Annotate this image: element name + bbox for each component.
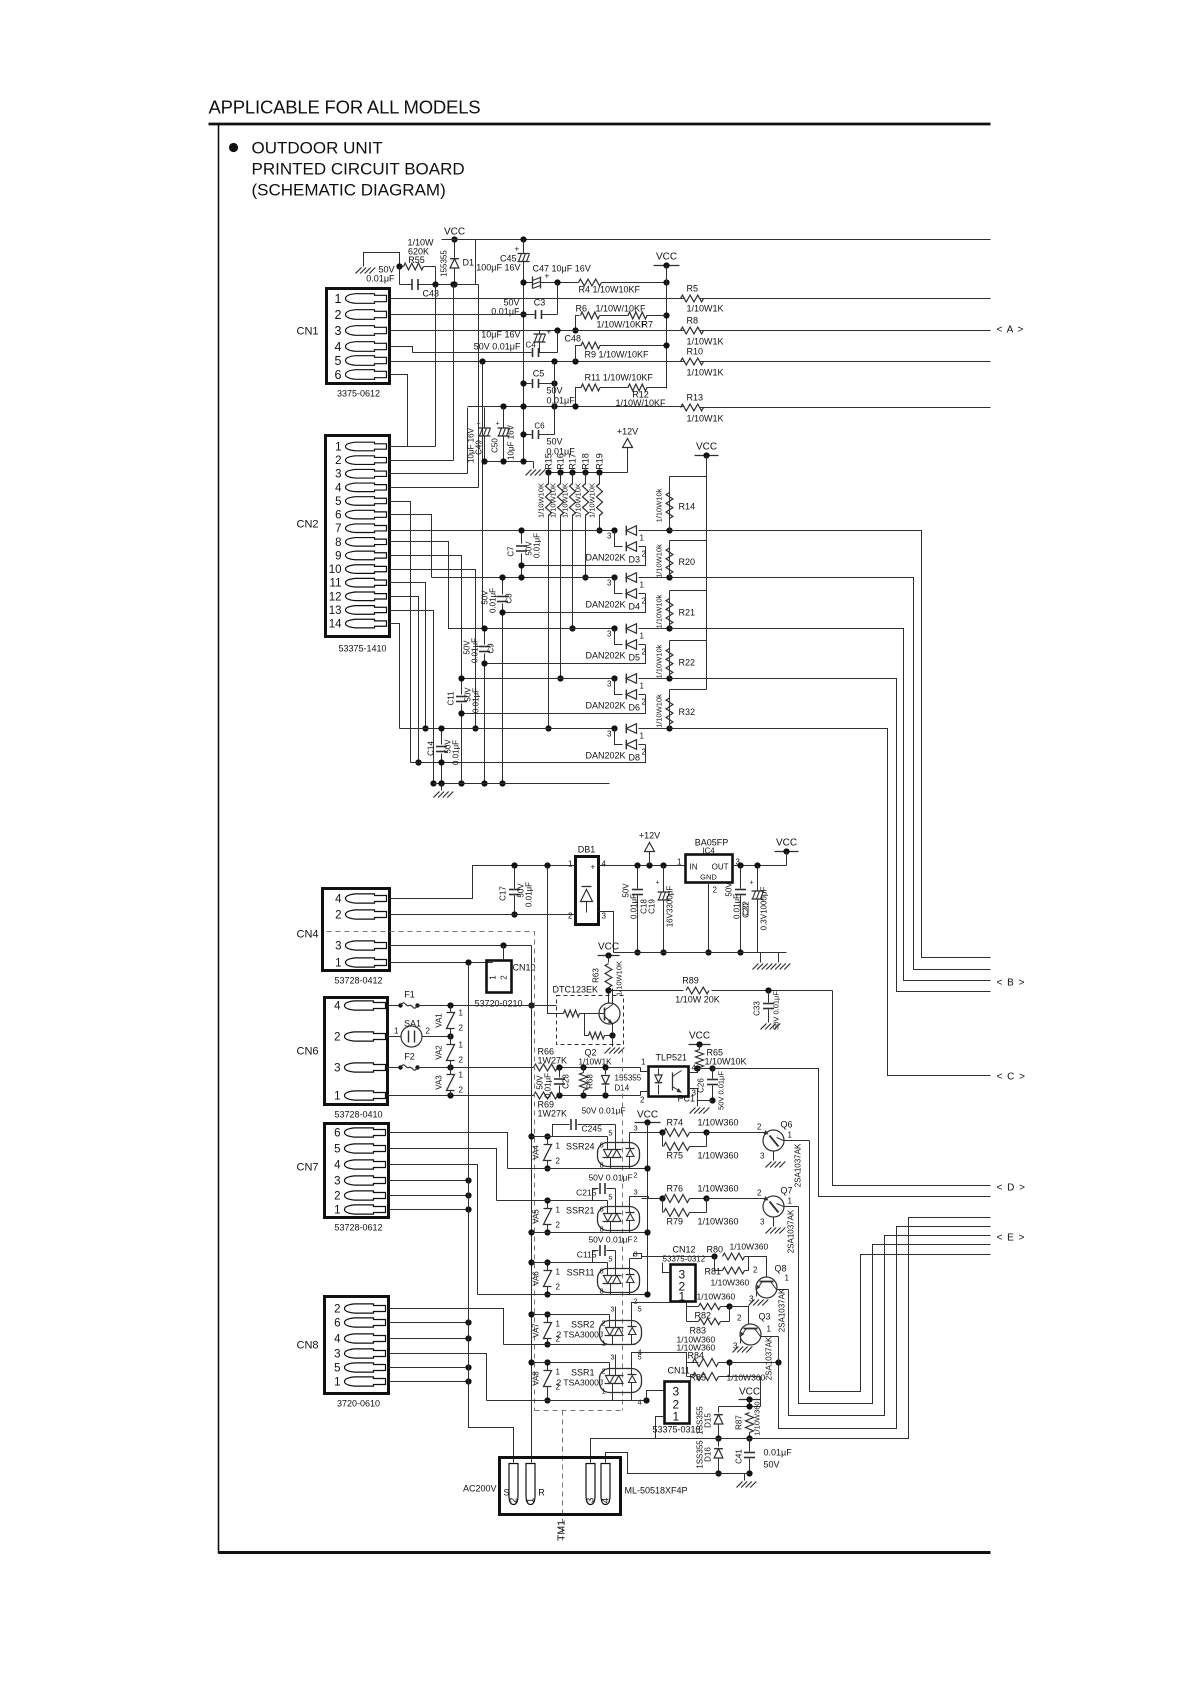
wire CN2 pin8 row [390,542,483,629]
svg-text:C6: C6 [534,422,545,431]
svg-text:1/10W 20K: 1/10W 20K [675,995,720,1005]
svg-text:1: 1 [335,292,342,306]
svg-text:Q7: Q7 [781,1186,793,1196]
svg-text:6: 6 [335,368,342,382]
wire CN2 pin9 row [390,556,462,679]
svg-text:1/10W360: 1/10W360 [698,1151,739,1161]
svg-text:6: 6 [334,1318,340,1330]
heading bullet [229,143,238,152]
svg-text:1/10W1K: 1/10W1K [687,414,724,424]
svg-text:+: + [656,880,660,887]
svg-text:R55: R55 [408,255,425,265]
svg-text:50V 0.01μF: 50V 0.01μF [588,1173,632,1183]
svg-text:6: 6 [600,1267,604,1276]
svg-text:C215: C215 [576,1188,597,1198]
svg-text:C47 10μF 16V: C47 10μF 16V [533,264,591,274]
svg-text:R79: R79 [667,1217,684,1227]
svg-text:C5: C5 [533,369,545,379]
capacitor C26 50V 0.01uF [712,1069,714,1079]
svg-text:R6: R6 [576,304,588,314]
svg-text:3375-0612: 3375-0612 [337,389,380,399]
svg-text:AC200V: AC200V [463,1484,497,1494]
svg-text:1/10W10k: 1/10W10k [655,644,664,678]
svg-text:4: 4 [335,482,342,494]
svg-text:R20: R20 [679,557,696,567]
ground (PC1 pin3) [690,1108,696,1114]
svg-text:1: 1 [556,1268,561,1277]
svg-text:2: 2 [459,1086,464,1095]
svg-text:2: 2 [335,455,341,467]
wire SSR2 pin5 to R82 [632,1303,687,1322]
wire R84/R85 to Q3 collector line [730,1362,779,1364]
svg-text:53375-0312: 53375-0312 [663,1255,706,1264]
svg-text:CN1: CN1 [297,326,319,338]
wire SSR2 pin1/pin4 row [504,1344,636,1346]
wire SSR11 pin6 row [532,1262,608,1264]
svg-text:D4: D4 [629,602,641,612]
svg-text:< A >: < A > [997,325,1025,336]
svg-text:100μF 16V: 100μF 16V [476,263,520,273]
svg-text:C9: C9 [487,643,496,654]
wire CN8 pin1 [389,1381,469,1383]
ground (left of R55) [364,253,400,267]
solid state relay SSR24 [598,1143,640,1167]
resistor R69 1W27K [534,1092,558,1099]
wire row628 to <B>3 [670,629,991,981]
svg-text:2: 2 [642,648,647,657]
connector CN7 53728-0612 [325,1124,389,1218]
svg-text:3: 3 [334,1063,340,1075]
wire DB1 pin3 down to ground rail [599,912,614,953]
wire CN2 pin5 row [390,502,411,763]
resistor R19 1/10W10K [596,469,602,475]
svg-text:R81: R81 [705,1267,722,1277]
svg-text:5: 5 [638,1353,642,1362]
diode D16 1SS355 [718,1439,720,1447]
svg-text:1/10W1K: 1/10W1K [687,368,724,378]
wire SSR24 pin8 row [508,1168,648,1170]
svg-text:F1: F1 [404,990,415,1000]
varistor VA2 [450,1037,452,1045]
svg-text:3: 3 [610,1353,614,1362]
resistor R10 1/10W1K [681,358,704,365]
svg-text:1: 1 [677,858,682,867]
svg-text:CN8: CN8 [297,1340,319,1352]
wire row728 to <C> [670,729,991,1076]
svg-text:+12V: +12V [617,427,638,437]
svg-text:2: 2 [335,910,341,922]
svg-text:R32: R32 [679,707,696,717]
wire SSR24 pin3 to R74 row [630,1132,663,1134]
svg-text:DTC123EK: DTC123EK [553,985,599,995]
solid state relay SSR11 [598,1269,640,1293]
junction row y=628 pull-up [666,625,672,631]
svg-text:5: 5 [608,1193,612,1202]
resistor R89 1/10W 20K [605,987,611,993]
svg-text:155355: 155355 [615,1074,642,1083]
wire D4 return to ground column [503,594,646,613]
wire F1 row [418,1005,557,1007]
svg-text:50V: 50V [764,1460,780,1470]
svg-text:R4 1/10W10KF: R4 1/10W10KF [579,285,641,295]
svg-text:VA6: VA6 [532,1271,541,1286]
svg-text:2: 2 [602,1319,606,1328]
wire SSR11 pin3 to R80 [634,1254,715,1257]
svg-text:0.01μF: 0.01μF [544,1073,553,1098]
svg-text:R22: R22 [679,658,696,668]
svg-text:4: 4 [335,340,342,354]
wire VCC bus (R14-R32) [706,456,708,690]
wire IC4 pin3 rail east [733,865,787,867]
wire row577 to <B>2 [670,578,991,970]
wire CN7 pin1 [389,1209,469,1211]
wire row530 to <B>1 [670,531,991,958]
wire R18 to row 577 [585,515,587,578]
svg-text:VCC: VCC [444,227,465,238]
wire D3 return to ground column [522,547,646,566]
svg-text:R7: R7 [642,320,654,330]
wire ground bus [434,783,610,785]
svg-text:VA2: VA2 [435,1045,444,1060]
wire CN4 pin2 row to DB1 pin2 [390,914,576,916]
svg-text:IC4: IC4 [702,847,715,856]
svg-text:R9 1/10W/10KF: R9 1/10W/10KF [585,350,650,360]
wire SSR1 pin1 row [487,1400,647,1402]
wire D8 return to ground column [411,745,646,763]
terminal TM1 ML-50518XF4P [500,1458,621,1515]
resistor R76 1/10W360 [642,1198,663,1200]
svg-text:+: + [496,421,500,428]
wire SSR21 pin6 row [497,1200,608,1202]
resistor R20 1/10W10k [670,540,707,542]
svg-text:1/10W10K: 1/10W10K [561,483,570,518]
svg-text:C19: C19 [648,899,657,914]
svg-text:C8: C8 [505,593,514,604]
svg-text:1/10W1K: 1/10W1K [687,304,724,314]
svg-text:CN10: CN10 [513,963,536,973]
resistor R4 1/10W10KF [579,279,602,286]
svg-text:3: 3 [607,579,612,588]
resistor R8 1/10W1K [681,327,704,334]
svg-text:2: 2 [757,1123,762,1132]
diode D6 DAN202K (pair) [611,675,617,681]
resistor R22 1/10W10k [670,640,707,642]
varistor VA4 [547,1137,549,1145]
wire CN1 pin1 row / R5 [391,298,685,300]
wire +12V rail [549,472,628,474]
varistor VA6 [547,1263,549,1271]
svg-text:1/10W10K: 1/10W10K [537,483,546,518]
svg-text:C41: C41 [735,1449,744,1464]
wire CN6 pin1 row [388,1095,534,1097]
svg-text:53728-0410: 53728-0410 [334,1110,382,1120]
ground (C49/C50/C6) [485,461,534,463]
capacitor C19 16V3300uF [663,866,665,892]
resistor R9 1/10W/10KF [576,346,582,362]
wire neutral bus (CN4 pin1 to TM1 pin2) [469,963,514,1463]
wire CN2 pin6 row [390,515,432,578]
svg-text:C7: C7 [507,546,516,557]
svg-text:D8: D8 [629,753,641,763]
svg-text:VCC: VCC [776,838,797,849]
svg-text:1: 1 [394,1027,399,1036]
resistor R14 1/10W10k [670,476,707,478]
svg-text:8: 8 [335,537,341,549]
svg-text:2: 2 [642,550,647,559]
svg-text:R76: R76 [667,1184,684,1194]
varistor VA5 [547,1201,549,1209]
svg-text:OUTDOOR UNIT: OUTDOOR UNIT [252,139,383,158]
svg-text:VCC: VCC [739,1387,760,1398]
svg-text:C20: C20 [742,903,751,918]
svg-text:R85: R85 [690,1373,707,1383]
arrester SA1 [388,1036,401,1038]
varistor VA1 [450,1006,452,1013]
transistor Q2 DTC123EK (digital) [557,996,624,1045]
wire VCC to SSR return rows [647,1123,649,1295]
svg-text:3: 3 [610,1305,614,1314]
capacitor C43 [399,267,401,285]
varistor VA7 [547,1315,549,1323]
wire Q6 collector loop to <E> [810,1141,991,1392]
svg-text:1: 1 [602,1387,606,1396]
svg-text:2: 2 [634,1235,638,1244]
solid state relay SSR21 [598,1207,640,1231]
svg-text:0.01μF: 0.01μF [533,533,542,558]
wire R13 row [468,406,685,408]
svg-text:1/10W360: 1/10W360 [697,1292,736,1302]
svg-text:2: 2 [757,1189,762,1198]
resistor R7 1/10W/10KF [628,312,647,319]
svg-text:C33: C33 [753,1001,762,1016]
svg-text:0.01μF: 0.01μF [547,396,576,406]
svg-text:0.01μF: 0.01μF [630,894,639,919]
wire CN1 pin5 row [391,361,685,363]
svg-text:5: 5 [638,1305,642,1314]
wire R15 to row 728 [548,515,550,729]
svg-text:5: 5 [334,1363,340,1375]
svg-text:1W27K: 1W27K [538,1056,568,1066]
ground (IC4 rail, double) [760,953,762,963]
svg-text:D1: D1 [463,258,475,268]
svg-text:1/10W10k: 1/10W10k [655,694,664,728]
capacitor C5 50V 0.01uF [524,383,532,385]
wire CN2 pin12 row [390,597,419,763]
svg-text:1: 1 [640,534,645,543]
ground (Q8) [749,1300,755,1306]
svg-text:1/10W360: 1/10W360 [727,1373,766,1383]
svg-text:C17: C17 [499,886,508,901]
capacitor C18 50V 0.01uF [637,866,639,889]
svg-text:VA5: VA5 [532,1209,541,1224]
svg-text:1: 1 [335,958,341,970]
wire CN1 pin6 row [391,375,408,447]
svg-text:3720-0610: 3720-0610 [337,1399,380,1409]
solid state relay SSR2 TSA3000J [600,1321,642,1345]
svg-text:R63: R63 [592,968,601,983]
wire SSR21 pin3 to R76 row [630,1196,649,1198]
wire R17 to row 628 [572,515,574,629]
junction row y=577 pull-up [666,574,672,580]
svg-text:1/10W10k: 1/10W10k [655,488,664,522]
svg-text:50V 0.01μF: 50V 0.01μF [588,1235,632,1245]
resistor R18 1/10W10K [582,469,588,475]
svg-text:3: 3 [335,469,341,481]
resistor R32 1/10W10k [670,689,707,691]
svg-text:3: 3 [335,324,342,338]
svg-text:2: 2 [556,1221,561,1230]
svg-text:(SCHEMATIC DIAGRAM): (SCHEMATIC DIAGRAM) [252,181,446,200]
svg-text:C48: C48 [565,334,582,344]
svg-text:155355: 155355 [440,250,449,277]
varistor VA3 [450,1068,452,1075]
svg-text:+: + [750,880,754,887]
wire PC1 pin4 node [689,1069,698,1073]
wire CN8 pin6 [389,1322,469,1324]
svg-text:1/10W1K: 1/10W1K [687,337,724,347]
svg-text:1/10W10K: 1/10W10K [574,483,583,518]
regulator IC4 BA05FP [686,855,733,883]
wire IC4 GND [708,883,710,953]
wire CN2 pin1 row [390,446,436,448]
resistor R87 1/10W360 [746,1413,754,1433]
svg-text:3: 3 [335,941,341,953]
svg-text:2 TSA3000J: 2 TSA3000J [557,1330,604,1340]
svg-text:R10: R10 [687,347,704,357]
svg-text:3: 3 [334,1176,340,1188]
diode D14 155355 [602,1064,608,1070]
svg-text:C11: C11 [447,691,456,706]
svg-text:D6: D6 [629,703,641,713]
svg-text:1: 1 [767,1325,772,1334]
border frame [209,123,991,126]
svg-text:0.01μF: 0.01μF [733,894,742,919]
wire diode row y=728 [400,728,618,730]
svg-text:PC1: PC1 [678,1094,696,1104]
svg-text:PRINTED CIRCUIT BOARD: PRINTED CIRCUIT BOARD [252,160,465,179]
svg-text:2: 2 [426,1027,431,1036]
resistor R74 1/10W360 [642,1132,663,1134]
transistor Q8 2SA1037AK [749,1257,767,1278]
wire Q8 collector [788,1289,790,1291]
capacitor C33 50V 0.01uF [768,991,770,1003]
wire VCC column [666,266,668,389]
svg-text:2: 2 [642,597,647,606]
svg-text:R68: R68 [586,1074,595,1089]
svg-text:1/10W10K: 1/10W10K [549,483,558,518]
dashed boundary (control/power isolation) [327,932,535,1411]
svg-text:DAN202K: DAN202K [586,553,626,563]
wire CN4 pin4 to rail [390,866,576,899]
svg-text:VCC: VCC [689,1031,710,1042]
svg-text:2: 2 [459,1056,464,1065]
svg-text:+12V: +12V [639,831,660,841]
svg-text:6: 6 [600,1205,604,1214]
svg-text:Q8: Q8 [775,1264,787,1274]
svg-text:3: 3 [607,680,612,689]
svg-text:R8: R8 [687,316,699,326]
ground (Q2 emitter) [605,1048,611,1054]
svg-text:DB1: DB1 [578,845,596,855]
resistor R79 1/10W360 [662,1199,664,1213]
svg-text:SA1: SA1 [404,1019,421,1029]
svg-text:4: 4 [334,1334,341,1346]
wire CN4 pin3 row [390,945,532,947]
svg-text:1/10W10K: 1/10W10K [588,483,597,518]
svg-text:SSR11: SSR11 [567,1268,595,1278]
svg-text:1/10W/10KF: 1/10W/10KF [596,304,647,314]
wire diode row y=678 [462,678,618,680]
wire CN11 pin link [647,1391,665,1401]
svg-text:2 TSA3000J: 2 TSA3000J [557,1378,604,1388]
svg-text:2: 2 [640,1096,645,1105]
resistor R6 1/10W/10KF [576,316,580,331]
svg-text:3: 3 [607,532,612,541]
capacitor C49 10uF 16V [484,408,486,428]
svg-text:R89: R89 [682,976,699,986]
wire CN2 pin3 row [390,473,468,475]
wire DB1/IC4 ground rail [614,952,787,954]
varistor VA8 [547,1363,549,1371]
svg-text:DAN202K: DAN202K [586,651,626,661]
svg-text:1/10W360: 1/10W360 [698,1217,739,1227]
svg-text:3: 3 [586,1497,597,1503]
svg-text:2: 2 [634,1171,638,1180]
wire row 407 corner to CN2 pin3 [467,408,469,474]
svg-text:+: + [545,272,550,281]
wire CN2 pin10 row [390,570,476,729]
svg-text:CN6: CN6 [297,1046,319,1058]
svg-text:+: + [591,863,596,872]
svg-text:3: 3 [760,1218,765,1227]
svg-text:1: 1 [640,682,645,691]
svg-text:0.01μF: 0.01μF [366,274,395,284]
svg-text:50V 0.01μF: 50V 0.01μF [717,1071,726,1110]
svg-text:C50: C50 [491,438,500,453]
ground (C33) [761,1024,767,1030]
resistor R12 1/10W/10KF [628,384,647,391]
svg-text:5: 5 [335,354,342,368]
svg-text:R18: R18 [581,453,591,470]
svg-text:+: + [547,328,552,337]
svg-text:< C >: < C > [997,1072,1026,1083]
svg-text:2SA1037AK: 2SA1037AK [787,1209,796,1253]
svg-text:1: 1 [556,1368,561,1377]
svg-text:10μF 16V: 10μF 16V [507,424,516,460]
svg-text:DAN202K: DAN202K [586,751,626,761]
svg-text:16V3300μF: 16V3300μF [666,886,675,928]
svg-text:R21: R21 [679,608,696,618]
svg-text:1: 1 [785,1274,790,1283]
connector CN10 53720-0210 [487,961,512,993]
svg-text:R19: R19 [595,453,605,470]
svg-text:R84: R84 [688,1351,705,1361]
svg-text:VCC: VCC [656,252,677,263]
svg-text:4: 4 [638,1398,642,1407]
svg-text:2: 2 [568,912,573,921]
svg-text:< B >: < B > [997,978,1026,989]
wire SSR2 pin2 row [532,1314,610,1316]
svg-text:VA3: VA3 [435,1075,444,1090]
wire row1067 into PC1 pin1 [641,1068,649,1072]
svg-text:VA1: VA1 [435,1013,444,1028]
wire R87 top row [749,1400,751,1407]
connector CN2 53375-1410 [326,436,390,637]
svg-text:R14: R14 [679,502,696,512]
svg-text:13: 13 [329,605,342,617]
wire live bus (CN4 pin3 to TM1 pin1) [531,946,533,1463]
capacitor C6 50V 0.01uF [524,434,532,436]
